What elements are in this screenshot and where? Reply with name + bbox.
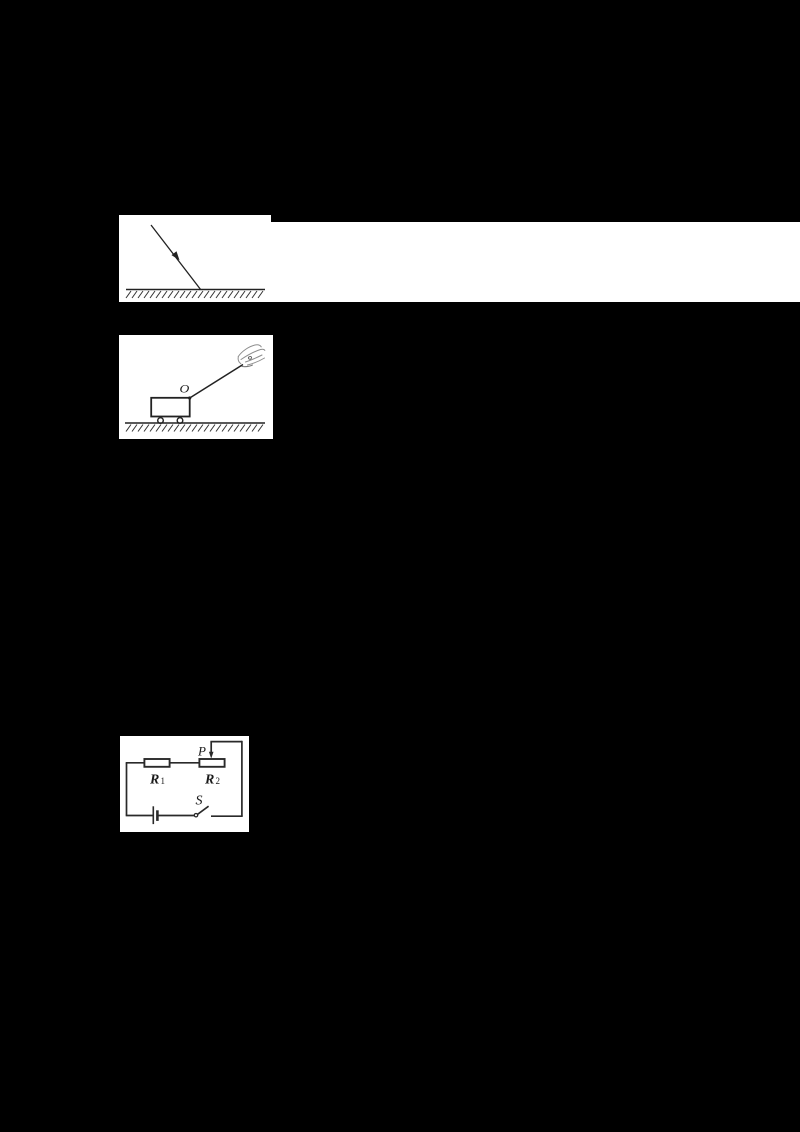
figure 2: cart pulled by hand via rope bbox=[119, 335, 273, 439]
attachment dot at O bbox=[188, 396, 191, 399]
rope bbox=[190, 365, 243, 399]
label P bbox=[197, 744, 206, 759]
wire right vertical bbox=[241, 741, 243, 816]
svg-text:R: R bbox=[204, 773, 214, 788]
rheostat R2 bbox=[199, 759, 224, 767]
switch S blade bbox=[194, 806, 208, 817]
label R2 bbox=[204, 773, 220, 788]
resistor R1 bbox=[144, 759, 169, 767]
cart wheel right bbox=[177, 418, 183, 424]
wire bottom right bbox=[211, 815, 243, 817]
ground hatching bbox=[126, 425, 263, 432]
ground surface line bbox=[126, 289, 265, 291]
svg-text:R: R bbox=[149, 773, 159, 788]
svg-text:P: P bbox=[197, 744, 206, 759]
svg-text:2: 2 bbox=[216, 776, 221, 786]
incident ray with arrowhead bbox=[151, 225, 201, 290]
hand sketch bbox=[238, 345, 265, 367]
wire bottom left bbox=[126, 815, 154, 817]
svg-text:O: O bbox=[180, 382, 190, 395]
wire battery to switch bbox=[157, 815, 194, 817]
battery long plate bbox=[152, 806, 154, 824]
battery short plate bbox=[156, 810, 159, 821]
cart wheel left bbox=[158, 418, 164, 424]
ground line bbox=[125, 422, 265, 424]
ground hatching bbox=[126, 291, 263, 298]
slider P arrow bbox=[209, 742, 214, 759]
svg-text:1: 1 bbox=[161, 776, 166, 786]
svg-text:S: S bbox=[196, 794, 203, 809]
node O label bbox=[180, 382, 190, 395]
wire slider top to right bbox=[210, 741, 242, 743]
figure 3: circuit with battery, switch S, resistor R1, rheostat R2 bbox=[120, 736, 249, 832]
label S bbox=[196, 794, 203, 809]
label R1 bbox=[149, 773, 165, 788]
figure 1: ray incident on ground bbox=[119, 215, 271, 302]
wire R1 to R2 bbox=[170, 762, 200, 764]
wire left vertical bbox=[126, 763, 128, 816]
wire top-left to R1 bbox=[126, 762, 145, 764]
cart body bbox=[151, 398, 190, 417]
white band right of figure 1 bbox=[271, 222, 800, 302]
